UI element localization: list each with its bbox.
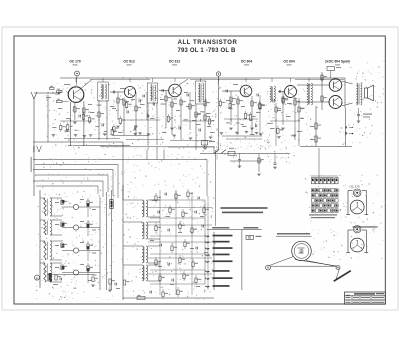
svg-text:OC 170: OC 170	[350, 185, 360, 189]
svg-text:OC 612: OC 612	[169, 59, 181, 63]
svg-text:E: E	[36, 276, 38, 280]
svg-text:OC 612: OC 612	[123, 59, 135, 63]
svg-text:2xOC 604 Spark: 2xOC 604 Spark	[325, 59, 350, 63]
svg-text:OC 604: OC 604	[241, 59, 253, 63]
svg-text:OC 170: OC 170	[69, 59, 81, 63]
svg-text:793 OL 1 -793 OL B: 793 OL 1 -793 OL B	[177, 48, 236, 54]
svg-text:ALL TRANSISTOR: ALL TRANSISTOR	[178, 40, 238, 46]
svg-text:OC 604: OC 604	[283, 59, 295, 63]
